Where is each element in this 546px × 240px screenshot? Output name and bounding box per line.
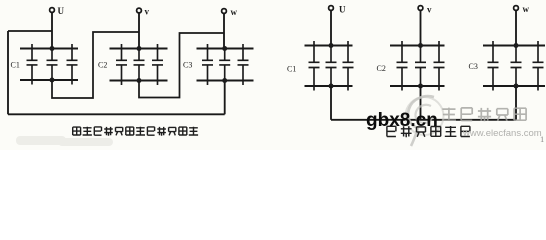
svg-text:v: v	[145, 7, 150, 17]
capacitor C1b	[47, 49, 58, 81]
wire: W drop to C3 top bus	[515, 10, 517, 45]
capacitor bank C3 (star)	[483, 46, 545, 87]
C2 top bus	[110, 47, 168, 49]
C1 bottom bus	[20, 79, 78, 81]
wire: bottom run to C3 bottom	[8, 113, 225, 115]
junction dot C1 top	[50, 46, 55, 51]
wire: star C1 neutral drop	[330, 86, 332, 120]
C3 bottom bus	[197, 79, 254, 81]
wire: star C2 neutral drop	[420, 86, 422, 120]
C1 top bus	[20, 47, 78, 49]
wire: neutral bus	[331, 119, 516, 121]
capacitor C1a	[27, 44, 38, 85]
capacitor bank C2 (star)	[390, 46, 445, 87]
capacitor C1c	[67, 44, 78, 85]
wire: riser to C3 bottom bus	[224, 81, 226, 115]
capacitor C2b (star)	[415, 46, 426, 87]
wire: C1 bottom to V (drop, run, riser, top run)	[52, 32, 139, 98]
svg-text:1: 1	[540, 134, 544, 144]
svg-text:gbx8.cn: gbx8.cn	[366, 110, 438, 131]
wire: C2 bottom to W (drop, run, riser, top run)	[139, 33, 224, 98]
wire: W drop to C3 top bus	[223, 13, 225, 48]
junction dot star C2 bottom	[418, 84, 423, 89]
svg-text:w: w	[231, 7, 238, 17]
capacitor C2b	[134, 49, 145, 81]
star C2 bottom bus	[390, 85, 445, 87]
svg-text:U: U	[58, 6, 65, 16]
capacitor C3b	[219, 49, 230, 81]
C3 top bus	[197, 47, 254, 49]
junction dot C2 top	[137, 46, 142, 51]
C2 bottom bus	[110, 79, 168, 81]
capacitor C3a (star)	[488, 41, 499, 91]
svg-text:C2: C2	[377, 64, 386, 73]
watermark logo circle	[406, 96, 444, 146]
capacitor C2a (star)	[397, 41, 408, 91]
terminal W (star diagram)	[514, 6, 519, 11]
star C3 top bus	[483, 44, 545, 46]
junction dot C2 bottom	[137, 78, 142, 83]
capacitor C3c (star)	[533, 41, 544, 91]
capacitor C1b (star)	[326, 46, 337, 87]
caption: star connection (pseudo CJK strokes)	[387, 126, 470, 137]
star C1 top bus	[305, 44, 353, 46]
capacitor bank C1 (star)	[305, 46, 353, 87]
star C3 bottom bus	[483, 85, 545, 87]
svg-text:C1: C1	[11, 61, 20, 70]
capacitor C2c (star)	[434, 41, 445, 91]
svg-text:www.elecfans.com: www.elecfans.com	[462, 128, 542, 139]
terminal V (left diagram)	[137, 8, 142, 13]
wire: V drop to C2 top bus	[420, 10, 422, 45]
wire: U branch left	[8, 30, 52, 32]
capacitor C3c	[238, 44, 249, 85]
junction dot star C1 bottom	[329, 84, 334, 89]
capacitor C2c	[152, 44, 163, 85]
wire: U drop to C1 top bus	[330, 10, 332, 45]
star C1 bottom bus	[305, 85, 353, 87]
wire: left vertical (U to bottom run)	[7, 31, 9, 114]
terminal U (left diagram)	[50, 8, 55, 13]
star C2 top bus	[390, 44, 445, 46]
capacitor bank C3 (delta)	[197, 49, 254, 81]
svg-text:C3: C3	[469, 62, 478, 71]
terminal U (star diagram)	[329, 6, 334, 11]
watermark elecfans name (pseudo CJK strokes)	[442, 108, 526, 122]
wire: U drop to C1 top bus	[51, 12, 53, 48]
wire: V drop to C2 top bus	[138, 13, 140, 49]
capacitor C3b (star)	[511, 46, 522, 87]
junction dot star C3 bottom	[514, 84, 519, 89]
capacitor bank C1 (delta)	[20, 49, 78, 81]
junction dot star C2 top	[418, 43, 423, 48]
svg-text:C2: C2	[98, 61, 107, 70]
junction dot C1 bottom	[50, 78, 55, 83]
capacitor C1a (star)	[309, 41, 320, 91]
svg-text:v: v	[427, 5, 432, 15]
caption: delta connection (pseudo CJK strokes)	[73, 127, 198, 136]
svg-text:w: w	[523, 4, 530, 14]
capacitor bank C2 (delta)	[110, 49, 168, 81]
terminal V (star diagram)	[418, 6, 423, 11]
svg-text:C1: C1	[287, 65, 296, 74]
wire: star C3 neutral drop	[515, 86, 517, 120]
faint corner smudge	[16, 136, 113, 146]
junction dot C3 top	[222, 46, 227, 51]
svg-text:U: U	[339, 5, 346, 15]
capacitor C3a	[202, 44, 213, 85]
svg-text:C3: C3	[183, 60, 192, 69]
junction dot C3 bottom	[222, 78, 227, 83]
capacitor C1c (star)	[343, 41, 354, 91]
junction dot star C1 top	[329, 43, 334, 48]
capacitor C2a	[116, 44, 127, 85]
terminal W (left diagram)	[222, 9, 227, 14]
junction dot star C3 top	[514, 43, 519, 48]
